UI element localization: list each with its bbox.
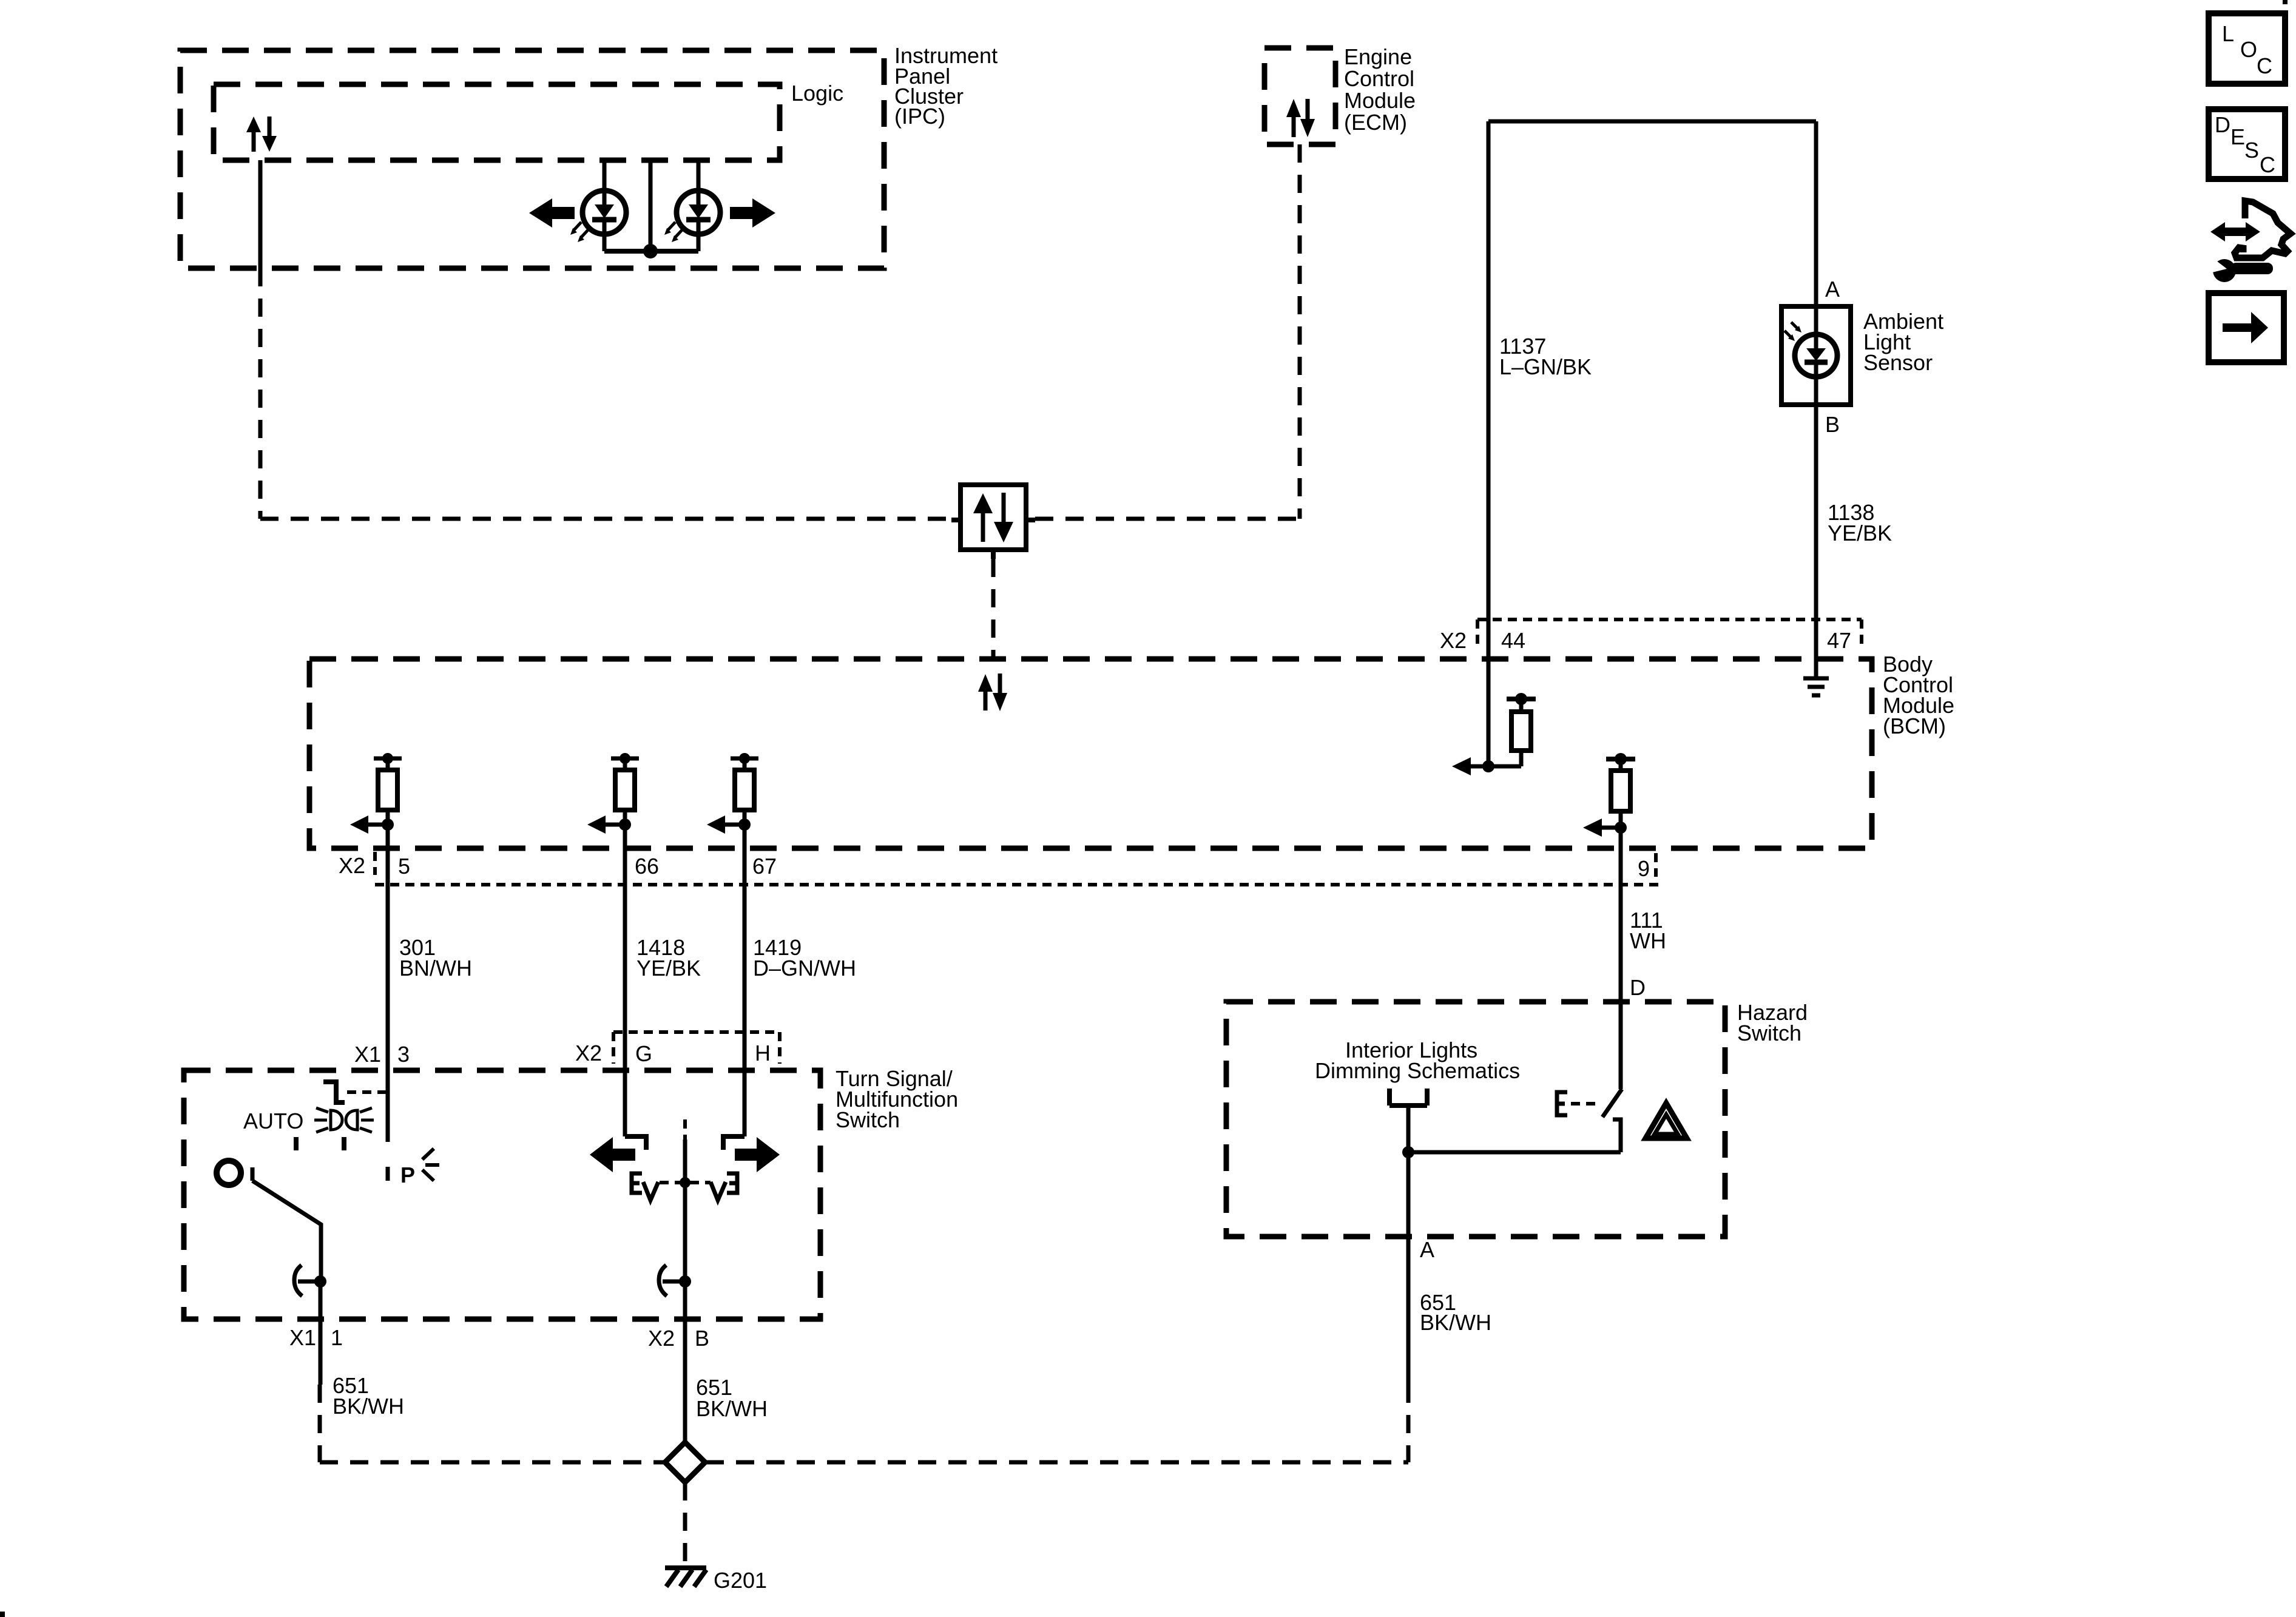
svg-text:BK/WH: BK/WH — [333, 1394, 404, 1419]
junction: pin 5 node — [382, 819, 394, 831]
hazard switch fixed contact — [1613, 1119, 1621, 1152]
wire 651 BK/WH (hazard A) — [1406, 1152, 1411, 1462]
svg-text:Logic: Logic — [791, 81, 843, 106]
svg-text:9: 9 — [1638, 856, 1650, 881]
resistor R3 (BCM driver pin 5) — [374, 753, 402, 825]
svg-text:Switch: Switch — [1737, 1021, 1801, 1045]
wire: ground bus 651 right segment — [706, 1460, 1408, 1465]
svg-text:5: 5 — [398, 854, 410, 879]
page mark bottom left — [0, 1612, 5, 1617]
connector X2 (switch top) — [613, 1032, 780, 1064]
wire: bracket stem — [1406, 1106, 1411, 1152]
svg-text:B: B — [695, 1326, 709, 1351]
svg-text:X2: X2 — [648, 1326, 675, 1351]
signal arrow (BCM pin 9 input) — [1583, 819, 1621, 837]
ground (BCM internal, pin 47) — [1803, 678, 1829, 695]
svg-text:L–GN/BK: L–GN/BK — [1499, 354, 1592, 379]
signal arrow (BCM pin 5) — [350, 815, 388, 834]
svg-text:WH: WH — [1630, 928, 1666, 953]
wire: sensor A drop — [1814, 121, 1818, 306]
wire: ground bus 651 left segment — [320, 1460, 664, 1465]
right turn arrow icon — [730, 198, 775, 228]
wire 651 BK/WH (X1-1) — [320, 1281, 320, 1462]
contact hook (X1-1) — [294, 1265, 302, 1296]
connector X2 (BCM top) — [1477, 619, 1862, 648]
svg-text:66: 66 — [635, 854, 659, 879]
turn switch right fixed contact (pin H) — [723, 1136, 745, 1150]
svg-text:(BCM): (BCM) — [1883, 714, 1946, 738]
svg-text:BK/WH: BK/WH — [696, 1396, 768, 1421]
wire: turn switch pole to pin B — [683, 1139, 687, 1443]
junction: pin 9 node — [1615, 822, 1627, 834]
Logic box — [214, 84, 780, 160]
left turn arrow icon — [529, 198, 575, 228]
LED left cathode wire — [603, 234, 607, 251]
LOC reference icon — [2209, 13, 2285, 84]
headlamp switch detent icon — [323, 1082, 345, 1102]
OFF position circle — [217, 1161, 241, 1185]
svg-text:1: 1 — [331, 1325, 343, 1350]
serial data splice box — [951, 485, 1035, 559]
svg-text:3: 3 — [397, 1042, 410, 1067]
headlamp switch wiper stub — [251, 1167, 255, 1181]
contact hook (X2-B) — [659, 1265, 667, 1296]
headlamp switch blade — [252, 1181, 321, 1281]
svg-text:G: G — [635, 1041, 652, 1066]
wire 1138 YE/BK — [1814, 405, 1818, 678]
LED right emission arrows — [664, 222, 683, 242]
LED left turn indicator anode wire — [603, 160, 607, 192]
LED left turn indicator — [582, 191, 626, 234]
junction: LED bus node — [643, 244, 658, 258]
wire 111 WH — [1619, 828, 1623, 1089]
hazard switch cam E — [1557, 1092, 1567, 1115]
svg-text:47: 47 — [1827, 628, 1851, 653]
wire end dash below pin 3 wire — [386, 1167, 390, 1181]
right cam follower E — [727, 1173, 737, 1193]
svg-text:D–GN/WH: D–GN/WH — [753, 956, 856, 981]
page mark top right — [2283, 0, 2288, 4]
svg-text:E: E — [2230, 124, 2245, 149]
ambient light sensor photodiode — [1795, 306, 1837, 405]
LED right cathode wire — [697, 234, 701, 251]
svg-text:Control: Control — [1344, 66, 1414, 91]
svg-text:C: C — [2257, 53, 2272, 78]
svg-text:A: A — [1825, 277, 1840, 302]
svg-text:X2: X2 — [575, 1041, 602, 1065]
junction: hazard pole node — [1402, 1146, 1414, 1158]
svg-text:B: B — [1825, 412, 1840, 437]
LED right turn indicator — [677, 191, 720, 234]
wire: hazard pole to splice — [1408, 1150, 1621, 1155]
svg-text:BN/WH: BN/WH — [399, 956, 472, 981]
wire: serial data dashed drop from IPC — [258, 268, 263, 519]
switch position ticks — [294, 1137, 299, 1150]
resistor R1 (BCM pull-up pin 44) — [1507, 693, 1536, 766]
svg-text:YE/BK: YE/BK — [636, 956, 701, 981]
svg-text:X2: X2 — [1440, 628, 1467, 653]
sensor incident light arrows — [1784, 322, 1801, 341]
svg-text:D: D — [2215, 112, 2230, 137]
junction: pin 66 node — [619, 819, 631, 831]
wire 1137 link to sensor — [1488, 120, 1816, 124]
wire 1137 L-GN/BK — [1487, 121, 1491, 766]
wire: R1 to pin 44 node — [1488, 765, 1521, 769]
junction: pin 44 node — [1482, 760, 1494, 772]
turn switch left fixed contact (pin G) — [625, 1136, 646, 1150]
svg-text:D: D — [1630, 975, 1646, 1000]
headlamp-on icon — [314, 1108, 374, 1132]
wire 1418 YE/BK — [623, 825, 627, 1136]
svg-text:A: A — [1420, 1237, 1434, 1262]
hazard switch blade — [1602, 1089, 1622, 1117]
DESC reference icon — [2209, 109, 2285, 179]
svg-text:X1: X1 — [354, 1042, 381, 1067]
left cam follower v — [643, 1182, 658, 1200]
svg-text:Engine: Engine — [1344, 44, 1412, 69]
wire: logic center tap to LED bus — [649, 160, 653, 251]
junction: pin 67 node — [738, 819, 751, 831]
center pole dashed stub — [683, 1119, 687, 1139]
junction: X1-1 contact node — [314, 1275, 326, 1288]
svg-text:67: 67 — [752, 854, 777, 879]
connector X2 (BCM bottom) — [375, 852, 1663, 885]
svg-text:AUTO: AUTO — [243, 1109, 303, 1133]
svg-text:(ECM): (ECM) — [1344, 110, 1407, 135]
contact bar (X1-1) — [298, 1280, 320, 1284]
svg-text:C: C — [2260, 152, 2275, 177]
svg-text:BK/WH: BK/WH — [1420, 1310, 1491, 1335]
wire: LED common return bus — [604, 249, 698, 254]
svg-text:Sensor: Sensor — [1863, 350, 1933, 375]
ambient light sensor box — [1781, 306, 1851, 405]
serial data up/down arrows (BCM input) — [978, 673, 1007, 711]
right cam follower v — [711, 1182, 726, 1200]
svg-text:44: 44 — [1501, 628, 1525, 653]
svg-text:(IPC): (IPC) — [894, 104, 945, 129]
forward reference arrow icon — [2209, 293, 2284, 362]
resistor R4 (BCM driver pin 66) — [611, 753, 639, 825]
ground G201 — [665, 1568, 706, 1587]
svg-text:L: L — [2222, 21, 2234, 46]
signal arrow (BCM pin 67) — [707, 815, 745, 834]
wire: serial data dashed drop from ECM — [1298, 144, 1302, 519]
svg-text:X1: X1 — [289, 1325, 316, 1350]
Turn Signal / Multifunction Switch box — [184, 1070, 820, 1319]
wire 301 BN/WH — [386, 825, 390, 1142]
wire: serial data bus IPC to splice symbol — [260, 517, 951, 521]
svg-text:Switch: Switch — [836, 1107, 900, 1132]
resistor R5 (BCM driver pin 67) — [731, 753, 758, 825]
cam linkage dashes right — [690, 1181, 711, 1184]
Instrument Panel Cluster (IPC) box — [180, 50, 884, 268]
parking lamp P icon — [400, 1149, 439, 1187]
junction: X2-B contact node — [679, 1275, 691, 1288]
signal arrow (BCM pin 66) — [587, 815, 625, 834]
contact bar (X2-B) — [663, 1280, 685, 1284]
wire: serial data bus splice symbol to ECM — [1035, 517, 1300, 521]
signal arrow (BCM pin 44 input) — [1452, 757, 1488, 775]
cam linkage dashes left — [660, 1181, 680, 1184]
wire: splice to ground G201 — [683, 1482, 687, 1568]
svg-text:P: P — [400, 1163, 415, 1187]
svg-text:O: O — [2240, 37, 2257, 62]
hazard triangle icon — [1646, 1103, 1687, 1138]
wire 1419 D-GN/WH — [743, 825, 747, 1136]
splice S-diamond — [665, 1442, 705, 1482]
serial data up/down arrows (ECM) — [1286, 99, 1315, 137]
wire: logic output to IPC serial stub — [258, 160, 263, 268]
detent linkage dashes — [347, 1090, 388, 1094]
wire: serial data dashed drop to BCM — [991, 559, 996, 659]
svg-text:Module: Module — [1344, 88, 1416, 113]
right turn arrow icon (switch) — [735, 1137, 780, 1172]
svg-text:G201: G201 — [714, 1568, 767, 1593]
Hazard Switch box — [1226, 1002, 1725, 1237]
diagnostic hand-and-wrench icon — [2205, 201, 2291, 282]
junction: cam pivot — [680, 1177, 690, 1188]
svg-text:X2: X2 — [339, 853, 365, 878]
resistor R2 (BCM pull-up pin 9) — [1606, 753, 1635, 828]
left cam follower E — [632, 1173, 642, 1193]
svg-text:Dimming Schematics: Dimming Schematics — [1315, 1058, 1520, 1083]
Engine Control Module (ECM) box — [1264, 48, 1335, 144]
svg-text:H: H — [755, 1041, 771, 1065]
svg-text:YE/BK: YE/BK — [1828, 521, 1892, 545]
off-page bracket (dimming schematics) — [1389, 1089, 1427, 1106]
LED right turn indicator anode wire — [697, 160, 701, 192]
left turn arrow icon (switch) — [590, 1137, 635, 1172]
Body Control Module (BCM) box — [309, 659, 1872, 848]
hazard cam linkage dashes — [1571, 1102, 1601, 1106]
LED left emission arrows — [570, 222, 589, 242]
serial data up/down arrows (IPC logic) — [246, 116, 277, 152]
svg-text:S: S — [2244, 138, 2259, 163]
